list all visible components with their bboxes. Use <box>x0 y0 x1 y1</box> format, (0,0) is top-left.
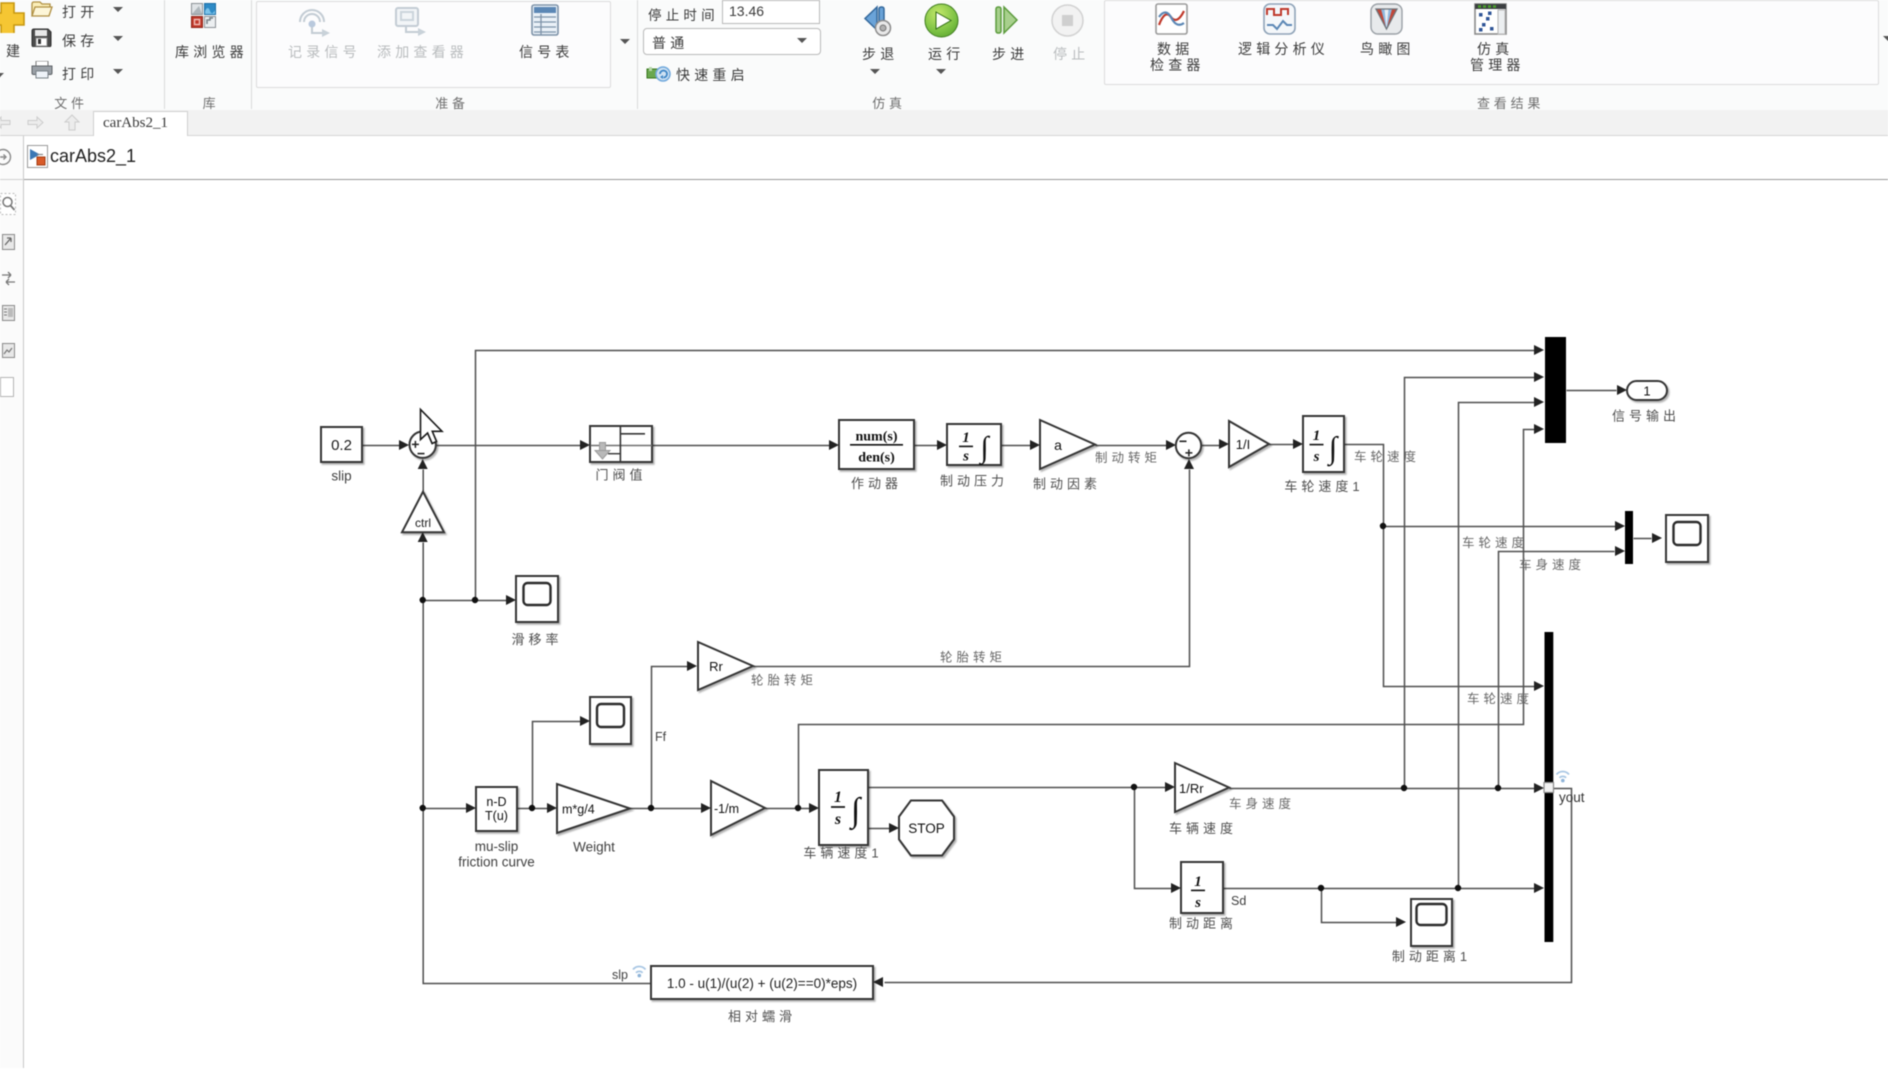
arrowhead into gain a <box>1030 440 1040 450</box>
svg-text:作动器: 作动器 <box>851 476 902 491</box>
wire -1/m to vehicle speed integrator <box>766 808 810 810</box>
wire mux2 to scope2 <box>1634 538 1652 540</box>
arrowhead into mux1 input 2 <box>1534 372 1544 382</box>
mu-slip friction curve table <box>476 787 517 831</box>
nav forward arrow <box>24 114 46 131</box>
svg-text:车轮速度: 车轮速度 <box>1462 535 1528 550</box>
prepare gallery panel <box>256 1 611 88</box>
wire sum1 to threshold block <box>437 445 584 447</box>
svg-text:1: 1 <box>1313 428 1321 444</box>
wire vehicle speed branch to mux1 input 2 <box>1405 378 1535 789</box>
wire branch to Ff scope <box>533 722 581 809</box>
wire slp branch up to mux1 input 1 <box>476 351 1535 601</box>
save button <box>31 28 52 47</box>
arrowhead into braking distance scope <box>1396 917 1406 927</box>
arrowhead into -1/m gain <box>701 803 711 813</box>
gain -1/m <box>711 781 765 835</box>
brake pressure integrator <box>947 424 1001 465</box>
arrowhead into vehicle speed integrator <box>809 803 819 813</box>
svg-text:ctrl: ctrl <box>415 516 431 530</box>
svg-text:制动距离: 制动距离 <box>1169 916 1237 931</box>
mouse cursor <box>421 410 443 444</box>
wire actuator to brake pressure integrator <box>915 445 941 447</box>
svg-text:s: s <box>1194 895 1201 911</box>
arrowhead into out port oval <box>1617 385 1627 395</box>
junction dot Ff branch <box>648 805 654 811</box>
arrowhead into gain Rr <box>687 661 697 671</box>
gain a (brake factor) <box>1040 420 1095 469</box>
nav back arrow <box>0 114 14 131</box>
arrowhead into yout input 2 <box>1534 783 1544 793</box>
junction dot Sd to mux1 branch <box>1455 885 1461 891</box>
svg-text:车辆速度: 车辆速度 <box>1169 821 1237 836</box>
arrowhead into Ff scope <box>580 716 590 726</box>
svg-text:slip: slip <box>331 469 351 484</box>
gain 1/Rr (vehicle speed) <box>1175 763 1229 812</box>
Ff scope <box>590 697 631 744</box>
wire sum2 to gain 1/I <box>1202 445 1223 447</box>
data inspector <box>1155 3 1188 35</box>
arrowhead into Weight gain <box>547 803 557 813</box>
out port 1 (signal output) <box>1627 381 1667 400</box>
signal table <box>531 4 559 37</box>
arrowhead into mux1 input 4 <box>1534 424 1544 434</box>
wire gain 1/I to wheel speed integrator <box>1270 444 1297 446</box>
svg-text:Rr: Rr <box>709 659 723 674</box>
wire Rr to sum2 south input (tire torque) <box>754 470 1190 667</box>
arrowhead into ctrl gain <box>418 532 428 542</box>
wire threshold to actuator <box>653 445 833 447</box>
wire mu-slip to Weight gain <box>518 808 548 810</box>
wire ctrl gain to sum1 south input <box>422 470 424 493</box>
step back <box>858 2 895 39</box>
junction dot slp at mu-slip branch <box>420 805 426 811</box>
arrowhead into mux1 input 3 <box>1534 397 1544 407</box>
mux2 <box>1625 511 1633 564</box>
wire wheel speed integrator to yout input 1 <box>1345 445 1535 687</box>
wire branch to Sd integrator <box>1135 788 1172 889</box>
junction dot vehicle speed to mux2 <box>1495 785 1501 791</box>
arrowhead into mux1 input 1 <box>1534 345 1544 355</box>
svg-text:-1/m: -1/m <box>714 802 739 816</box>
svg-text:1: 1 <box>1194 874 1202 890</box>
wire brake pressure to gain a <box>1002 445 1034 447</box>
add viewer (disabled) <box>392 6 432 40</box>
svg-text:Ff: Ff <box>655 730 667 744</box>
arrowhead into yout input 1 <box>1534 681 1544 691</box>
signal routing icon <box>1 271 16 286</box>
wire Sd branch to mux1 input 3 <box>1459 403 1535 889</box>
arrowhead into actuator <box>829 440 839 450</box>
log signals (disabled) <box>296 6 334 40</box>
svg-text:相对蠕滑: 相对蠕滑 <box>728 1009 796 1024</box>
junction dot vehicle speed to Sd <box>1131 784 1137 790</box>
yout logged port marker <box>1544 783 1554 793</box>
pan icon <box>2 234 15 252</box>
Fcn relative slip block <box>651 966 873 999</box>
svg-text:车轮速度1: 车轮速度1 <box>1284 479 1363 494</box>
svg-text:1.0 - u(1)/(u(2) + (u(2)==0)*e: 1.0 - u(1)/(u(2) + (u(2)==0)*eps) <box>667 976 857 991</box>
braking distance scope <box>1411 899 1452 946</box>
svg-text:slp: slp <box>612 968 628 982</box>
svg-text:s: s <box>834 811 841 828</box>
svg-text:车身速度: 车身速度 <box>1519 557 1585 572</box>
threshold block (valve) <box>590 426 652 462</box>
arrowhead into slip-rate scope <box>506 595 516 605</box>
Sd integrator (braking distance) <box>1181 862 1223 913</box>
svg-text:m*g/4: m*g/4 <box>562 803 595 817</box>
wire wheel speed branch to mux2 input 1 <box>1384 526 1619 528</box>
svg-text:制动距离1: 制动距离1 <box>1392 949 1471 964</box>
wire Ff branch to gain Rr <box>652 667 688 809</box>
wire Weight to -1/m gain <box>631 808 702 810</box>
svg-text:s: s <box>962 449 969 465</box>
arrowhead into brake pressure <box>937 440 947 450</box>
junction dot acceleration branch <box>795 805 801 811</box>
wheel speed integrator (车轮速度1) <box>1303 416 1344 472</box>
arrowhead into yout input 3 <box>1534 883 1544 893</box>
blank icon <box>0 377 14 397</box>
svg-text:信号输出: 信号输出 <box>1612 409 1680 424</box>
new button (partial) <box>0 0 25 33</box>
arrowhead into wheel speed integrator <box>1293 439 1303 449</box>
junction dot vehicle speed to mux1 <box>1401 785 1407 791</box>
junction dot Sd to scope branch <box>1318 885 1324 891</box>
arrowhead into Fcn (points left) <box>873 977 883 987</box>
zoom tool icon <box>0 193 17 216</box>
open button <box>31 1 53 17</box>
svg-text:门阀值: 门阀值 <box>595 468 646 483</box>
svg-text:1: 1 <box>962 430 970 446</box>
arrowhead into sum1 <box>399 440 409 450</box>
svg-text:制动压力: 制动压力 <box>940 474 1008 489</box>
gain ctrl <box>402 492 444 533</box>
arrowhead into gain 1/I <box>1219 439 1229 449</box>
STOP block <box>899 801 954 856</box>
svg-text:num(s): num(s) <box>855 430 897 445</box>
actuator transfer function <box>839 420 914 469</box>
fast restart <box>646 64 674 84</box>
wire slp branch to slip-rate scope <box>423 600 506 602</box>
wire vehicle speed integrator to gain 1/Rr <box>869 787 1166 789</box>
wire slip constant to sum1 <box>363 445 402 447</box>
Weight gain <box>557 784 630 833</box>
wire vehicle speed integrator to STOP <box>869 828 890 830</box>
wire Sd branch to braking distance scope <box>1322 889 1397 923</box>
constant block 0.2 (slip) <box>321 427 362 462</box>
sidebar collapse icon <box>0 148 12 166</box>
junction dot wheel speed to mux2 <box>1380 523 1386 529</box>
vehicle speed integrator (车辆速度1) <box>819 770 868 845</box>
arrowhead into sum2 south <box>1184 459 1194 469</box>
svg-text:车辆速度1: 车辆速度1 <box>803 846 882 861</box>
gain Rr <box>698 642 753 690</box>
sum2 <box>1176 433 1201 458</box>
svg-text:车轮速度: 车轮速度 <box>1354 449 1420 464</box>
scope2 <box>1666 515 1708 562</box>
junction dot slp top branch <box>472 597 478 603</box>
svg-text:制动转矩: 制动转矩 <box>1095 450 1161 465</box>
svg-text:a: a <box>1054 437 1062 453</box>
scope slip-rate <box>516 576 558 622</box>
sim manager <box>1474 3 1507 35</box>
wire acceleration branch to mux1 input 4 <box>799 430 1535 809</box>
arrowhead into Sd integrator <box>1171 883 1181 893</box>
image icon <box>2 343 15 360</box>
run <box>923 2 960 39</box>
library browser <box>191 3 216 28</box>
wire gain a to sum2 (brake torque) <box>1096 445 1170 447</box>
stop time <box>648 4 719 24</box>
svg-text:STOP: STOP <box>908 821 945 836</box>
junction dot mu branch to Ff scope <box>529 805 535 811</box>
svg-text:∫: ∫ <box>978 431 990 466</box>
arrowhead into threshold <box>580 440 590 450</box>
yout streaming badge <box>1557 771 1570 777</box>
svg-text:0.2: 0.2 <box>331 437 352 454</box>
logic analyzer <box>1263 3 1296 35</box>
view results panel <box>1104 0 1879 85</box>
svg-text:1/I: 1/I <box>1236 437 1250 452</box>
svg-text:den(s): den(s) <box>858 451 895 466</box>
svg-text:1: 1 <box>1643 384 1650 399</box>
arrowhead into gain 1/Rr <box>1165 782 1175 792</box>
wire Sd to yout input 3 <box>1224 888 1535 890</box>
wire slp to mu-slip table <box>423 808 466 810</box>
gain 1/I <box>1229 421 1269 467</box>
svg-text:车身速度: 车身速度 <box>1229 796 1295 811</box>
svg-text:Weight: Weight <box>573 840 615 855</box>
svg-text:轮胎转矩: 轮胎转矩 <box>940 650 1006 665</box>
arrowhead into mu-slip table <box>466 803 476 813</box>
arrowhead into mux2 input 2 <box>1615 546 1625 556</box>
annotation icon <box>2 305 15 323</box>
svg-text:制动因素: 制动因素 <box>1033 477 1101 492</box>
arrowhead into sum2 west <box>1166 440 1176 450</box>
svg-text:n-D: n-D <box>486 795 506 809</box>
arrowhead into scope2 <box>1652 533 1662 543</box>
birds eye <box>1370 3 1403 35</box>
mux1 <box>1545 337 1566 443</box>
print button <box>31 61 53 79</box>
wire vehicle speed branch to mux2 input 2 <box>1499 552 1615 789</box>
arrowhead into STOP <box>889 823 899 833</box>
arrowhead into mux2 input 1 <box>1615 521 1625 531</box>
wire yout feedback to Fcn <box>885 789 1572 983</box>
svg-text:yout: yout <box>1559 790 1585 805</box>
svg-text:车轮速度: 车轮速度 <box>1467 691 1533 706</box>
wire mux1 to out port <box>1567 390 1617 392</box>
wire 1/Rr vehicle speed to yout input 2 <box>1230 788 1535 790</box>
stop (disabled) <box>1049 2 1086 39</box>
svg-text:Sd: Sd <box>1231 894 1246 908</box>
svg-text:1: 1 <box>834 789 842 806</box>
nav up arrow <box>63 113 81 132</box>
svg-text:friction curve: friction curve <box>458 855 535 870</box>
svg-text:轮胎转矩: 轮胎转矩 <box>751 673 817 688</box>
sum1 <box>410 432 436 458</box>
junction dot slp at scope branch <box>420 597 426 603</box>
svg-text:滑移率: 滑移率 <box>511 632 562 647</box>
slp streaming badge <box>633 966 646 972</box>
svg-text:s: s <box>1313 449 1320 465</box>
model icon <box>27 145 48 168</box>
step forward <box>988 2 1025 39</box>
svg-text:T(u): T(u) <box>485 809 508 823</box>
yout to-workspace bar <box>1545 632 1554 942</box>
svg-text:mu-slip: mu-slip <box>475 839 519 854</box>
svg-text:1/Rr: 1/Rr <box>1179 781 1204 796</box>
wire slp vertical from Fcn output <box>423 543 651 984</box>
arrowhead into sum1 south <box>418 459 428 469</box>
